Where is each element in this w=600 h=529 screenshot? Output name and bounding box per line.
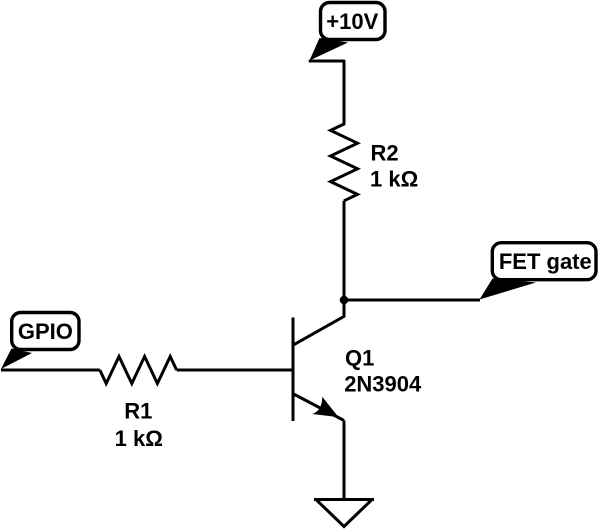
svg-text:R1: R1: [124, 399, 152, 424]
resistor R2: [331, 124, 358, 201]
wire node to FET gate: [344, 299, 480, 302]
svg-text:2N3904: 2N3904: [344, 372, 422, 397]
Q1 base bar: [292, 318, 295, 422]
net flag GPIO: [1, 313, 79, 370]
wire R1 to Q1 base: [177, 369, 292, 372]
Q1 emitter: [294, 394, 344, 421]
wire GPIO to R1: [1, 369, 100, 372]
Q1 collector: [294, 302, 344, 345]
svg-text:R2: R2: [371, 140, 399, 165]
net flag +10V: [310, 3, 386, 61]
svg-text:1 kΩ: 1 kΩ: [370, 167, 418, 192]
svg-text:GPIO: GPIO: [18, 319, 73, 344]
node junction: [340, 296, 349, 305]
svg-text:FET gate: FET gate: [499, 249, 592, 274]
wire R2 to node: [343, 201, 346, 300]
svg-text:1 kΩ: 1 kΩ: [115, 426, 163, 451]
Q1 emitter arrowhead: [315, 398, 337, 416]
svg-text:+10V: +10V: [326, 9, 378, 34]
wire emitter to ground: [343, 421, 346, 500]
wire +10V to R2: [310, 61, 344, 124]
net flag FET gate: [480, 243, 597, 300]
transistor Q1: [293, 302, 344, 421]
svg-text:Q1: Q1: [345, 345, 374, 370]
ground: [314, 500, 374, 527]
resistor R1: [100, 357, 177, 384]
